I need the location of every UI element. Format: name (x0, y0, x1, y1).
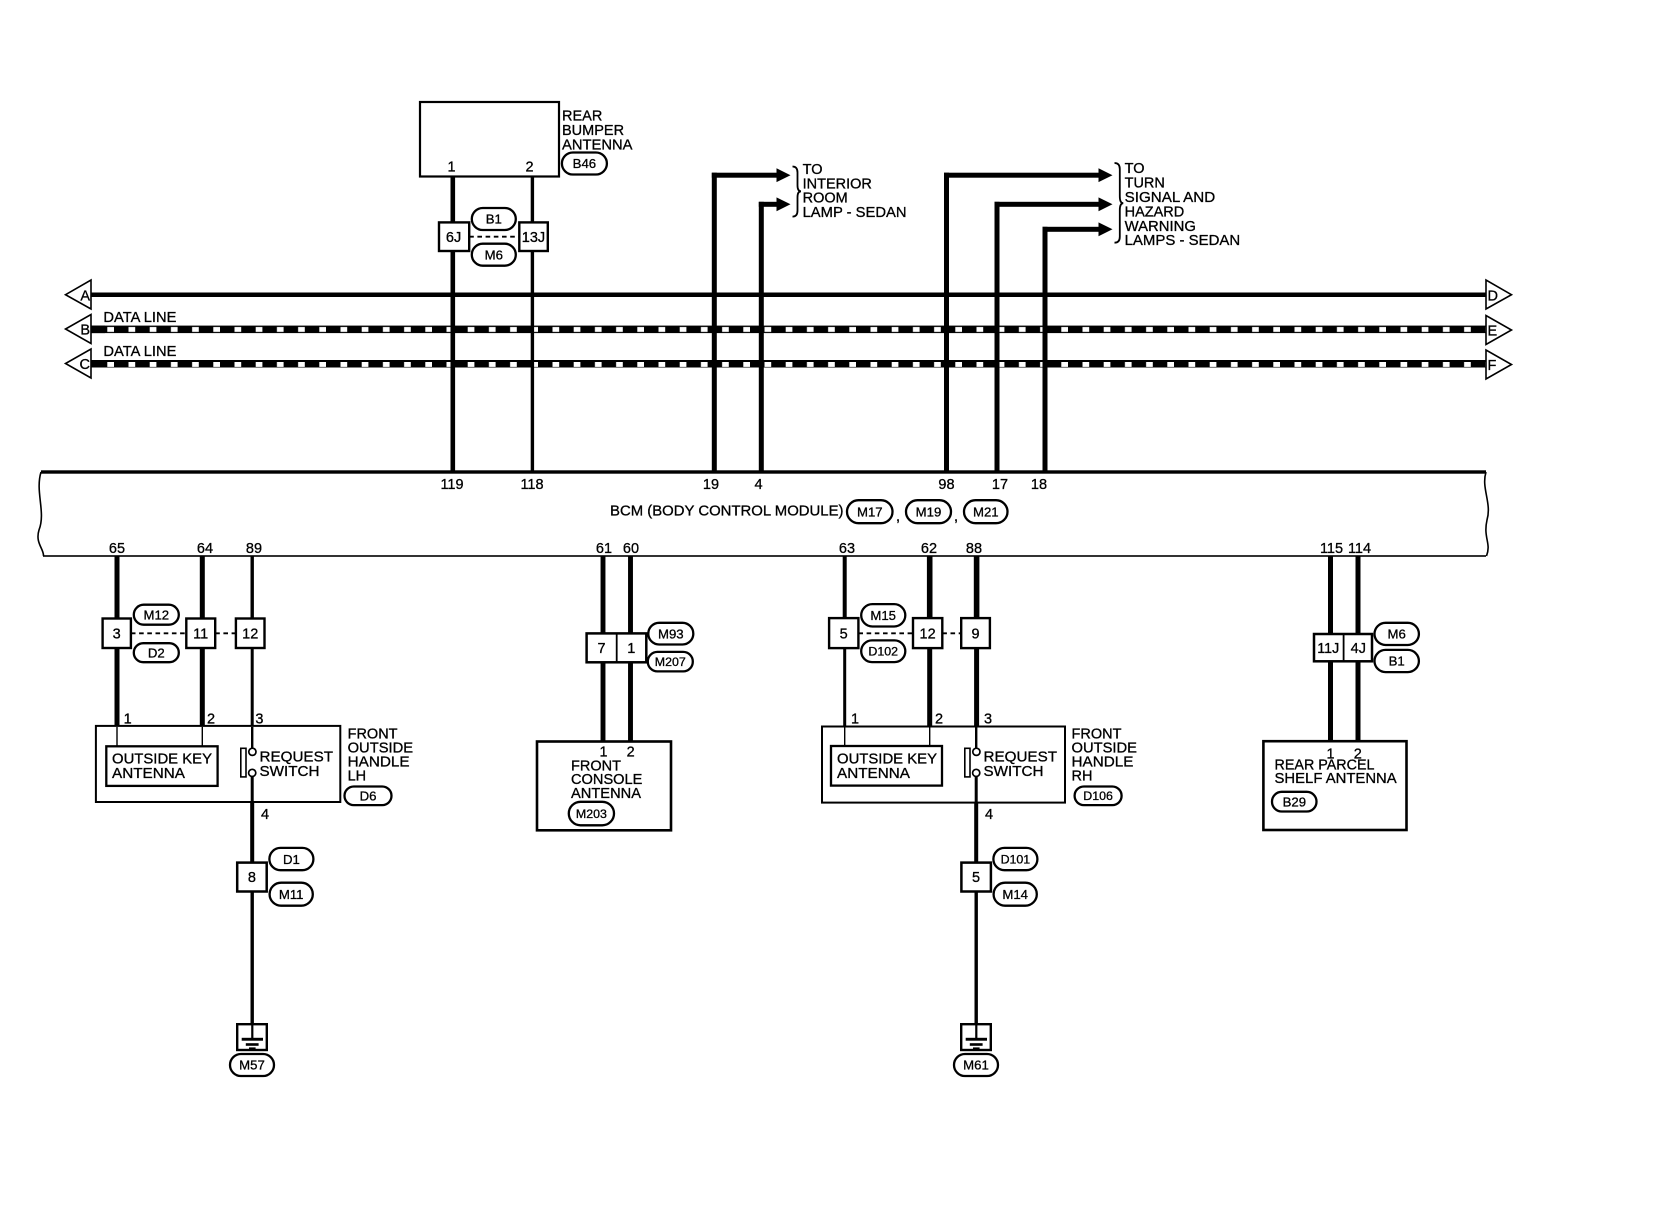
wire antenna pin1 to BCM pin 119 (451, 176, 456, 472)
pin 4 (front outside handle LH) (261, 807, 269, 823)
ground connector oval M61 (954, 1054, 998, 1076)
wire handle RH pin 4 to connector 5 (974, 803, 978, 863)
wire antenna pin2 to BCM pin 118 (531, 176, 534, 472)
svg-text:12: 12 (242, 626, 258, 642)
svg-text:11: 11 (193, 626, 208, 642)
svg-text:12: 12 (920, 626, 936, 642)
pin 119 (BCM) (440, 477, 463, 493)
comma (896, 509, 900, 525)
connector oval M21 (964, 500, 1008, 523)
connector oval B1 (right) (1375, 650, 1419, 672)
request switch RH (switch symbol) (965, 748, 980, 777)
pin 2 (front outside handle LH) (207, 711, 215, 727)
svg-text:B: B (80, 322, 90, 338)
wire BCM pin 19 to interior room lamp (arrow 1) (712, 168, 791, 472)
svg-text:DATA LINE: DATA LINE (103, 344, 176, 360)
label BCM (BODY CONTROL MODULE) (610, 504, 844, 520)
connector oval D6 (345, 787, 392, 806)
label REQUEST SWITCH (LH) (260, 749, 334, 780)
svg-text:13J: 13J (522, 230, 545, 246)
svg-text:88: 88 (966, 541, 982, 557)
svg-text:7: 7 (597, 641, 605, 657)
svg-text:5: 5 (840, 626, 848, 642)
svg-text:60: 60 (623, 541, 639, 557)
svg-text:ANTENNA: ANTENNA (571, 786, 641, 802)
svg-text:2: 2 (627, 744, 635, 760)
svg-text:D: D (1488, 289, 1498, 305)
pin 1 (rear parcel shelf antenna) (1327, 747, 1335, 763)
brace (to turn signal and hazard warning lamps) (1115, 163, 1124, 243)
wire bus A (solid data line) (91, 293, 1486, 298)
svg-text:8: 8 (248, 870, 256, 886)
wire BCM 88 to connector 9 (974, 556, 980, 618)
svg-text:REAR: REAR (562, 108, 602, 124)
wire handle RH pin2 to key antenna RH (929, 728, 930, 747)
wire connector 8 to ground M57 (251, 892, 254, 1025)
svg-text:M12: M12 (143, 607, 169, 622)
pin 115 (BCM bottom) (1320, 541, 1343, 557)
pin 60 (BCM bottom) (623, 541, 639, 557)
wire BCM 65 to connector 3 (115, 556, 120, 619)
svg-text:B1: B1 (1389, 654, 1405, 669)
rear parcel shelf antenna B29 box (1263, 741, 1406, 830)
front console antenna M203 box (537, 742, 671, 831)
svg-text:,: , (896, 509, 900, 525)
svg-text:LH: LH (348, 769, 367, 785)
svg-text:M15: M15 (870, 608, 896, 623)
wire connector 12 to handle pin 3 (251, 648, 254, 726)
svg-text:6J: 6J (446, 230, 461, 246)
pin 2 (rear parcel shelf antenna) (1354, 747, 1362, 763)
pin 1 (front console antenna) (600, 744, 608, 760)
svg-text:SHELF ANTENNA: SHELF ANTENNA (1275, 771, 1398, 787)
svg-text:D102: D102 (868, 645, 898, 659)
svg-text:B1: B1 (486, 212, 502, 227)
connector oval M17 (847, 500, 893, 523)
wire BCM 89 to connector 12 (251, 556, 254, 619)
wire handle pin3 to request switch LH (251, 727, 253, 748)
wire request switch LH to pin 4 (251, 777, 254, 802)
svg-text:64: 64 (197, 541, 213, 557)
svg-text:M19: M19 (916, 504, 942, 519)
connector oval D2 (134, 643, 179, 662)
wire dashed 6J to 13J (469, 236, 519, 238)
svg-text:LAMP - SEDAN: LAMP - SEDAN (803, 205, 907, 221)
svg-text:M207: M207 (655, 655, 686, 669)
ground connector oval M57 (230, 1054, 274, 1076)
pin 1 (front outside handle RH) (851, 711, 859, 727)
svg-text:114: 114 (1348, 541, 1371, 557)
pin 65 (BCM bottom) (109, 541, 125, 557)
pin 19 (BCM) (703, 477, 719, 493)
svg-text:M6: M6 (1388, 627, 1406, 642)
svg-text:118: 118 (520, 477, 543, 493)
label FRONT OUTSIDE HANDLE RH (1072, 726, 1138, 784)
label OUTSIDE KEY ANTENNA (LH) (112, 752, 212, 783)
svg-text:M11: M11 (279, 887, 304, 902)
comma (954, 509, 958, 525)
wire dashed 12 to 9 (RH) (942, 632, 961, 634)
svg-text:65: 65 (109, 541, 125, 557)
connector 5 (RH) (829, 618, 858, 648)
node A (left arrow) (66, 280, 92, 309)
outside key antenna LH box (106, 746, 217, 786)
svg-text:1: 1 (447, 160, 455, 176)
svg-text:B46: B46 (573, 156, 596, 171)
svg-text:115: 115 (1320, 541, 1343, 557)
node F (right arrow) (1486, 350, 1512, 379)
svg-text:4: 4 (754, 477, 762, 493)
outside key antenna RH box (831, 746, 942, 786)
BCM (body control module) box (38, 470, 1488, 557)
svg-text:1: 1 (627, 641, 635, 657)
pin 118 (BCM) (520, 477, 543, 493)
svg-text:98: 98 (938, 477, 954, 493)
connector oval M14 (994, 883, 1037, 906)
svg-text:1: 1 (851, 711, 859, 727)
svg-text:DATA LINE: DATA LINE (103, 310, 176, 326)
svg-text:B29: B29 (1283, 794, 1306, 809)
wire connector 3 to handle pin 1 (115, 648, 120, 726)
label DATA LINE (bus B) (103, 310, 176, 326)
svg-text:D2: D2 (148, 645, 165, 660)
svg-text:M57: M57 (239, 1058, 265, 1073)
wire bus B (dashed DATA LINE) (91, 326, 1486, 334)
svg-text:F: F (1488, 358, 1497, 374)
pin 1 (rear bumper antenna) (447, 160, 455, 176)
wire handle pin2 to key antenna LH (202, 727, 203, 746)
connector 11 (186, 619, 215, 649)
wire connector 1 to console antenna pin 2 (628, 662, 633, 741)
pin 2 (front outside handle RH) (935, 711, 943, 727)
svg-text:M14: M14 (1002, 887, 1028, 902)
label DATA LINE (bus C) (103, 344, 176, 360)
pin 4 (BCM) (754, 477, 762, 493)
wire connector 12 to handle RH pin 2 (927, 648, 932, 726)
connector oval M15 (861, 604, 905, 626)
svg-text:D106: D106 (1083, 789, 1113, 803)
wire connector 5 to handle RH pin 1 (843, 648, 846, 726)
pin 62 (BCM bottom) (921, 541, 937, 557)
svg-text:ANTENNA: ANTENNA (112, 766, 185, 782)
svg-text:61: 61 (596, 541, 612, 557)
connector 5 (lower RH) (961, 863, 991, 892)
pin 18 (BCM) (1031, 477, 1047, 493)
label TO TURN SIGNAL AND HAZARD WARNING LAMPS - SEDAN (1125, 161, 1241, 249)
svg-text:17: 17 (992, 477, 1008, 493)
svg-text:62: 62 (921, 541, 937, 557)
pin 61 (BCM bottom) (596, 541, 612, 557)
wire BCM 62 to connector 12 (RH) (927, 556, 933, 618)
svg-text:M61: M61 (963, 1058, 989, 1073)
svg-text:SWITCH: SWITCH (984, 764, 1044, 780)
pin 63 (BCM bottom) (839, 541, 855, 557)
connector oval B46 (562, 153, 607, 175)
wire BCM 114 to connector 4J (1356, 556, 1361, 634)
request switch LH (switch symbol) (241, 748, 256, 777)
svg-text:C: C (80, 357, 90, 373)
svg-text:5: 5 (972, 870, 980, 886)
pin 64 (BCM bottom) (197, 541, 213, 557)
pin 17 (BCM) (992, 477, 1008, 493)
svg-text:89: 89 (246, 541, 262, 557)
wire connector 11J to shelf antenna pin 1 (1328, 661, 1333, 741)
pin 2 (front console antenna) (627, 744, 635, 760)
connector 12 (236, 619, 265, 649)
ground M57 (237, 1024, 267, 1050)
label TO INTERIOR ROOM LAMP - SEDAN (803, 162, 907, 221)
pin 3 (front outside handle LH) (255, 711, 263, 727)
wire BCM 115 to connector 11J (1328, 556, 1333, 634)
svg-text:119: 119 (440, 477, 463, 493)
ground M61 (961, 1024, 991, 1050)
connector 3 (103, 619, 131, 649)
label FRONT CONSOLE ANTENNA (571, 758, 643, 802)
wire dashed 11 to 12 (215, 632, 236, 634)
wire handle RH pin1 to key antenna RH (844, 728, 845, 747)
label FRONT OUTSIDE HANDLE LH (348, 726, 414, 784)
connector oval D102 (861, 640, 905, 662)
svg-text:M21: M21 (973, 504, 999, 519)
connector oval M6 (right) (1375, 623, 1419, 645)
node C (left arrow) (66, 349, 92, 378)
svg-text:M203: M203 (576, 807, 607, 821)
wire BCM pin 18 to turn signal lamps (arrow 3) (1043, 222, 1113, 472)
svg-text:D1: D1 (283, 852, 300, 867)
svg-text:3: 3 (113, 626, 121, 642)
svg-text:ANTENNA: ANTENNA (562, 138, 633, 154)
svg-text:,: , (954, 509, 958, 525)
svg-text:4: 4 (985, 807, 993, 823)
wire BCM 63 to connector 5 (843, 556, 847, 618)
node B (left arrow) (66, 315, 92, 344)
svg-text:BCM (BODY CONTROL MODULE): BCM (BODY CONTROL MODULE) (610, 504, 844, 520)
connector oval D106 (1075, 787, 1122, 806)
svg-text:M17: M17 (857, 504, 883, 519)
connector oval M93 (648, 623, 693, 645)
svg-text:11J: 11J (1317, 641, 1339, 657)
svg-text:4: 4 (261, 807, 269, 823)
svg-text:M6: M6 (485, 247, 503, 262)
svg-text:D6: D6 (360, 788, 377, 803)
wire handle pin1 to key antenna LH (116, 727, 117, 746)
front outside handle LH box (96, 726, 340, 802)
svg-text:9: 9 (971, 626, 979, 642)
wire connector 7 to console antenna pin 1 (601, 662, 606, 741)
connector 9 (RH) (961, 618, 990, 648)
svg-text:SWITCH: SWITCH (260, 764, 320, 780)
label OUTSIDE KEY ANTENNA (RH) (837, 752, 937, 783)
wire BCM pin 4 to interior room lamp (arrow 2) (759, 197, 791, 472)
wire dashed 5 to 12 (RH) (858, 632, 913, 634)
connector oval M12 (134, 605, 179, 625)
rear bumper antenna B46 (box) (420, 102, 559, 177)
svg-text:REQUEST: REQUEST (984, 749, 1058, 765)
connector 11J|4J (M6/B1) (1314, 634, 1372, 661)
svg-text:REQUEST: REQUEST (260, 749, 334, 765)
connector 12 (RH) (913, 618, 942, 648)
pin 114 (BCM bottom) (1348, 541, 1371, 557)
connector 8 (237, 863, 267, 892)
wire BCM pin 17 to turn signal lamps (arrow 2) (995, 197, 1113, 472)
svg-text:LAMPS - SEDAN: LAMPS - SEDAN (1125, 233, 1241, 249)
wire handle RH pin3 to request switch RH (975, 728, 977, 749)
connector oval M19 (906, 500, 951, 523)
wire request switch RH to pin 4 (975, 777, 978, 803)
wire connector 4J to shelf antenna pin 2 (1356, 661, 1361, 741)
svg-text:ANTENNA: ANTENNA (837, 766, 910, 782)
svg-text:2: 2 (935, 711, 943, 727)
wire handle LH pin 4 to connector 8 (250, 802, 254, 863)
pin 4 (front outside handle RH) (985, 807, 993, 823)
svg-text:3: 3 (984, 711, 992, 727)
label REAR BUMPER ANTENNA (562, 108, 633, 153)
label REAR PARCEL SHELF ANTENNA (1275, 757, 1398, 787)
wire BCM 64 to connector 11 (200, 556, 205, 619)
connector oval M6 (top) (472, 244, 516, 266)
wire connector 11 to handle pin 2 (200, 648, 205, 726)
svg-text:M93: M93 (658, 626, 684, 641)
wire BCM pin 98 to turn signal lamps (arrow 1) (944, 168, 1113, 472)
label REQUEST SWITCH (RH) (984, 749, 1058, 780)
front outside handle RH box (822, 727, 1065, 803)
pin 3 (front outside handle RH) (984, 711, 992, 727)
connector oval B29 (1272, 792, 1317, 812)
pin 98 (BCM) (938, 477, 954, 493)
brace (to interior room lamp) (793, 167, 802, 217)
node D (right arrow) (1486, 280, 1512, 309)
wire bus C (dashed DATA LINE) (91, 360, 1486, 368)
connector 7|1 (M93/M207) (587, 633, 647, 662)
wire BCM 61 to connector 7 (601, 556, 606, 633)
wire connector 5 to ground M61 (975, 892, 978, 1025)
connector 6J (439, 222, 469, 251)
wire BCM 60 to connector 1 (628, 556, 633, 633)
pin 2 (rear bumper antenna) (525, 160, 533, 176)
connector 13J (519, 222, 548, 251)
connector oval D101 (993, 848, 1037, 870)
svg-text:RH: RH (1072, 769, 1093, 785)
connector oval M203 (569, 802, 614, 826)
connector oval B1 (top) (472, 208, 516, 230)
connector oval M11 (270, 883, 313, 906)
svg-text:4J: 4J (1351, 641, 1366, 657)
pin 89 (BCM bottom) (246, 541, 262, 557)
pin 88 (BCM bottom) (966, 541, 982, 557)
wire connector 9 to handle RH pin 3 (974, 648, 979, 726)
svg-text:19: 19 (703, 477, 719, 493)
connector oval M207 (648, 652, 693, 672)
connector oval D1 (269, 848, 313, 870)
node E (right arrow) (1486, 316, 1512, 345)
svg-text:63: 63 (839, 541, 855, 557)
wire dashed 3 to 11 (131, 632, 186, 634)
svg-text:E: E (1488, 323, 1498, 339)
svg-text:A: A (80, 289, 90, 305)
svg-text:D101: D101 (1001, 853, 1031, 867)
svg-text:18: 18 (1031, 477, 1047, 493)
svg-text:2: 2 (525, 160, 533, 176)
pin 1 (front outside handle LH) (124, 711, 132, 727)
